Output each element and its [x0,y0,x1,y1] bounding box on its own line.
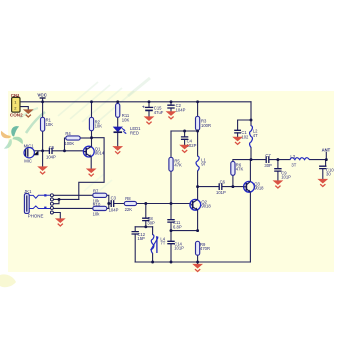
junction C11 bottom [170,229,173,232]
wire: VCC symbol stem [42,98,44,102]
svg-text:RED: RED [130,131,139,136]
wire: R4 left lead down to base node [65,138,66,151]
svg-text:470R: 470R [200,246,210,251]
wire: collector node feedback to phone jack pin2 [79,138,104,200]
svg-text:C6: C6 [220,179,226,184]
capacitor C6 [216,179,226,195]
wire: L4 top lead [152,227,154,235]
capacitor C7 [264,153,272,168]
junction mic node [41,149,44,152]
ground (C2) [166,111,177,119]
transistor Q3 [243,181,264,192]
ground (CON2 pin2, brown) [23,109,34,117]
wire: VCC top rail [20,101,251,103]
capacitor C11 [167,220,182,230]
resistor R5 [169,157,182,171]
wire: C10 top lead [325,160,327,166]
wire: C2 bottom to ground [170,108,172,111]
svg-text:100K: 100K [64,141,74,146]
svg-text:R7: R7 [93,189,99,194]
wire: Q2 base wire from audio network [114,203,191,205]
svg-text:R8: R8 [125,196,131,201]
svg-text:10K: 10K [95,124,103,129]
wire: Q2 collector lead [197,187,199,200]
svg-text:47K: 47K [236,167,244,172]
wire: ground rail stem [197,262,199,264]
wire: C8 stem from base wire [145,204,147,218]
resistor R8 [124,196,136,212]
inductor L4 (variable) [151,235,166,254]
junction R11/rail [116,100,119,103]
junction ANT node [325,158,328,161]
svg-text:6.8P: 6.8P [173,224,182,229]
wire: C9 stem [277,160,279,169]
ground (C9) [273,180,284,188]
resistor R11 [116,103,130,122]
wire: R2 bottom to Q1 collector [91,131,93,147]
svg-text:CN1: CN1 [11,93,20,98]
wire: emitter tap horizontal [171,230,198,232]
wire: jack pin3 link [53,199,59,203]
svg-text:VCC: VCC [37,93,47,98]
svg-text:L3: L3 [290,154,295,159]
inductor L3 [290,154,310,168]
svg-text:22K: 22K [125,207,133,212]
svg-text:104P: 104P [46,154,56,159]
LED LED1 [114,126,142,135]
wire: R11 top lead [117,102,119,104]
junction C9 tap [276,158,279,161]
svg-text:10K: 10K [122,118,130,123]
junction Q1 collector node [90,136,93,139]
capacitor C15 (electrolytic) [142,105,164,115]
junction R3/rail [196,100,199,103]
resistor R9 [196,241,211,255]
wire: C2 top lead [170,102,172,105]
junction C8 tank top [144,225,147,228]
wire: Q3 emitter to ground rail [249,192,251,262]
resistor R3 [196,116,212,130]
junction R4 left [63,149,66,152]
wire: R2 top lead [91,102,93,118]
connector CON2 [10,93,23,118]
wire: C4 stem from mid node [184,131,186,137]
junction L4/rail [151,261,154,264]
junction C15/rail [148,100,151,103]
svg-text:100R: 100R [201,123,211,128]
wire: C14 top lead [170,231,172,242]
wire: C5 to Q1 base [53,150,84,152]
jack JK1 (PHONE) [24,189,53,218]
junction base/R5 line [170,202,173,205]
microphone MIC1 [24,144,38,164]
wire: R6 top lead to RF node [233,160,251,162]
junction C4 tap [183,130,186,133]
junction C1 branch [250,119,253,122]
ground (LED1 cathode) [112,146,123,154]
junction C2/rail [170,100,173,103]
svg-text:47uF: 47uF [154,110,164,115]
wire: mic output to C5 [34,150,48,152]
svg-text:7T: 7T [160,241,165,246]
svg-text:9018: 9018 [254,186,264,191]
svg-text:PHONE: PHONE [28,214,44,219]
wire: C9 bottom to ground [277,171,279,180]
ground (C1) [232,137,243,145]
capacitor C12 [132,232,146,242]
svg-text:C7: C7 [265,153,271,158]
resistor R7 [93,189,107,204]
capacitor C9 [274,169,291,180]
wire: R1 bottom lead to mic node [42,131,44,151]
svg-text:10k: 10k [93,212,101,217]
capacitor C1 [234,130,249,139]
svg-text:101P: 101P [281,175,291,180]
wire: tank top horizontal [135,226,152,228]
resistor R10 [93,202,107,217]
resistor R2 [89,117,102,130]
svg-text:9014: 9014 [95,151,105,156]
wire: L1 bottom to Q2 collector node [197,171,199,187]
svg-text:9018: 9018 [201,204,211,209]
svg-text:4T: 4T [253,133,258,138]
wire: R1 top lead [42,102,44,118]
junction L1/Q2 collector/C6 [196,185,199,188]
junction C8 tap [144,202,147,205]
ground (C10) [317,179,328,187]
wire: C12 top lead [134,227,136,232]
transistor Q2 [190,199,211,210]
svg-text:MIC: MIC [24,159,32,164]
wire: jack pin5 to ground [53,213,60,219]
wire: mic node ground stem [42,151,44,167]
junction R2/rail [90,100,93,103]
svg-text:10K: 10K [46,122,54,127]
svg-text:30P: 30P [147,221,155,226]
wire: L3 to antenna node [310,159,327,161]
svg-text:3T: 3T [291,163,296,168]
capacitor C8 [142,216,155,225]
resistor R1 [41,117,54,131]
junction C14/rail [170,261,173,264]
resistor R4 [64,131,80,146]
wire: C6 to Q3 base [223,186,244,188]
wire: ground rail bottom [135,261,250,263]
wire: RF node to C7 [251,159,266,161]
inductor L1 [196,156,207,171]
wire: Q2 emitter lead [197,210,199,230]
wire: C15 bottom to ground [148,111,150,117]
resistor R6 [231,161,244,175]
junction RF node [250,158,253,161]
wire: C11 bottom to emitter tap [170,222,172,230]
junction R7/R10 output [107,202,110,205]
wire: jack pin1 to R7 [53,194,92,196]
wire: Q1 emitter to ground [90,157,92,169]
ground (Q1 emitter) [86,169,97,177]
svg-text:101P: 101P [174,246,184,251]
wire: Q3 collector to RF node [249,160,251,182]
svg-text:R10: R10 [93,202,101,207]
capacitor C2 [167,103,185,112]
svg-text:15P: 15P [137,236,145,241]
wire: R5 bottom to base crossing node [170,171,172,219]
junction VCC/rail [41,100,44,103]
svg-text:JK1: JK1 [24,189,32,194]
wire: C3 left lead [109,203,111,205]
wire: collector node to C6 [198,186,219,188]
ground (mic node) [37,166,48,174]
wire: C10 bottom to ground [322,169,324,179]
wire: L1 top lead [197,131,199,156]
power VCC [37,93,47,98]
ground (C15) [144,116,155,124]
wire: R11 to LED1 anode [117,117,119,127]
junction ground stem/rail [196,261,199,264]
wire: antenna stem [325,152,327,159]
junction R3 bottom [196,130,199,133]
wire: R9 bottom to ground rail [197,255,199,262]
wire: rail drop to oscillator (L2 top lead) [250,102,252,126]
ground (main rail) [192,264,203,272]
svg-text:MIC1: MIC1 [24,144,35,149]
wire: C12 bottom to ground rail [134,234,136,262]
junction jack pin3 tie [58,198,61,201]
capacitor C3 [109,195,119,212]
capacitor C10 [319,166,334,177]
transistor Q1 [83,146,104,157]
wire: C14 bottom to ground rail [170,244,172,262]
wire: L2 bottom lead to RF node [250,148,252,160]
inductor L2 [250,126,259,148]
wire: R5 top lead [170,131,172,157]
wire: LED1 cathode to ground [117,133,119,147]
wire: C1 bottom to ground [237,133,239,137]
wire: C7 to C9 node [269,159,290,161]
svg-text:C5: C5 [49,145,55,150]
wire: mid node horizontal (R3 bottom to R5 top) [171,130,198,132]
svg-text:C3: C3 [111,195,117,200]
ground (jack sleeve) [55,218,66,226]
svg-text:30P: 30P [264,163,272,168]
svg-text:104P: 104P [176,108,186,113]
wire: R3 top lead [197,102,199,117]
wire: C15 top lead [148,102,150,107]
junction R6 bottom [231,185,234,188]
svg-text:47K: 47K [174,163,182,168]
svg-text:101P: 101P [216,190,226,195]
svg-text:+: + [142,105,145,110]
capacitor C14 [167,241,184,250]
junction Q2 emitter/R9 [196,229,199,232]
wire: jack pin4 to R10 [53,207,92,209]
wire: R7-R10 output tie bar [107,195,109,208]
svg-text:CON2: CON2 [10,112,23,117]
wire: C4 bottom to ground [184,140,186,145]
capacitor C4 [181,137,197,148]
wire: R4 right lead to collector node [80,137,91,139]
wire: jack pin2 to riser [53,198,78,200]
capacitor C5 [46,145,56,160]
wire: L4 bottom to ground rail [152,254,154,263]
wire: R3 bottom lead [197,129,199,132]
svg-text:104P: 104P [109,208,119,213]
wire: CON2 pin2 to ground [20,107,28,110]
wire: C8 bottom to tank top [145,221,147,227]
wire: R6 bottom lead [232,175,234,186]
svg-text:ANT: ANT [322,147,331,152]
ground (C4) [179,145,190,153]
svg-text:R4: R4 [65,131,71,136]
svg-text:30: 30 [326,172,331,177]
wire: C1 branch from oscillator supply [238,120,251,130]
svg-text:9T: 9T [201,162,206,167]
